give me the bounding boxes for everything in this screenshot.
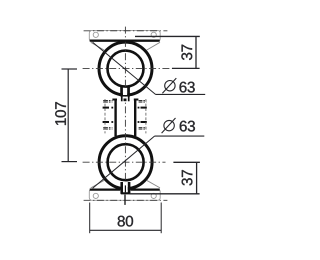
dim 37 top: wall face extension line	[135, 35, 200, 37]
bar top hook left	[112, 99, 117, 101]
right tab row4	[139, 127, 147, 129]
boss A arc band	[121, 95, 130, 97]
boss C screw line in slot	[124, 185, 126, 192]
left tab row4	[103, 127, 112, 129]
dim 37 top: text	[181, 45, 192, 60]
top plate hole left	[93, 32, 98, 37]
dim 80: left extension line	[89, 203, 91, 234]
gusset bottom-left	[91, 180, 104, 188]
dim 37 bottom: top extension line	[173, 161, 200, 163]
top ring inner circle	[108, 51, 144, 87]
right tab row2	[138, 107, 140, 109]
boss A right bar	[127, 87, 130, 97]
dim 107: bottom cap	[62, 161, 78, 163]
gusset bottom-right	[147, 180, 160, 188]
dim 80: text	[118, 216, 133, 227]
underline label 63 bottom	[155, 135, 205, 137]
bar right edge	[134, 99, 136, 136]
dim 37 top: bottom extension line	[172, 67, 200, 69]
gusset top-left	[91, 42, 104, 50]
boss A left bar	[120, 87, 123, 97]
bottom plate face thick line left segment	[90, 189, 121, 191]
right tab vertical hidden line	[145, 99, 147, 133]
diameter symbol top	[165, 81, 175, 91]
gusset top-right	[147, 42, 160, 50]
underline label 63 top	[156, 93, 206, 95]
screw line below boss C	[124, 195, 126, 205]
boss C slot mask	[123, 182, 128, 192]
right tab row3	[138, 121, 140, 123]
top plate hole right	[151, 32, 156, 37]
boss A slot mask	[123, 88, 127, 95]
top plate centerline	[84, 30, 168, 32]
dim 107: top cap	[62, 68, 78, 70]
label 63 top	[180, 82, 195, 93]
bottom plate face thick line right segment	[131, 189, 160, 191]
dim 107: text	[55, 102, 66, 125]
left tab vertical hidden line	[104, 99, 106, 133]
dim 37 top: vertical dimension line	[195, 36, 197, 68]
boss C bottom cap	[120, 192, 130, 194]
bottom plate centerline	[84, 199, 168, 201]
bottom ring outer circle	[99, 136, 152, 189]
boss C right bar	[128, 182, 131, 193]
dim 80: dimension line	[90, 229, 162, 231]
boss A lower left wall	[121, 96, 123, 101]
dim 107: vertical dimension line	[67, 69, 69, 162]
left tab row2	[103, 107, 109, 109]
top plate face thick line	[90, 39, 160, 41]
top ring outer circle	[99, 42, 152, 95]
top ring horizontal centerline	[83, 68, 177, 70]
boss A screw blob	[124, 99, 127, 102]
bar left edge	[114, 99, 116, 136]
dim 37 bottom: wall face extension line	[130, 193, 200, 195]
dim 37 bottom: vertical dimension line	[196, 162, 198, 194]
boss A lower right wall	[128, 96, 130, 101]
label 63 bottom	[180, 121, 195, 132]
bottom plate hole right	[151, 193, 156, 198]
bottom ring inner circle	[108, 144, 144, 180]
bottom plate	[89, 189, 160, 200]
top plate	[89, 30, 160, 41]
leader line diameter 63 top	[93, 42, 156, 94]
left tab row1	[103, 100, 112, 102]
bottom plate hole left	[93, 193, 98, 198]
right tab row1	[139, 100, 147, 102]
vertical centerline	[124, 27, 126, 196]
dim 37 bottom: text	[182, 170, 193, 185]
bottom ring horizontal centerline	[83, 161, 166, 163]
diameter symbol bottom	[164, 120, 174, 130]
bar top hook right	[134, 99, 139, 101]
left tab row3	[103, 121, 109, 123]
boss A lower channel mask	[123, 97, 128, 99]
dim 80: right extension line	[160, 203, 162, 234]
leader line diameter 63 bottom	[93, 136, 155, 188]
boss C left bar	[120, 182, 123, 193]
